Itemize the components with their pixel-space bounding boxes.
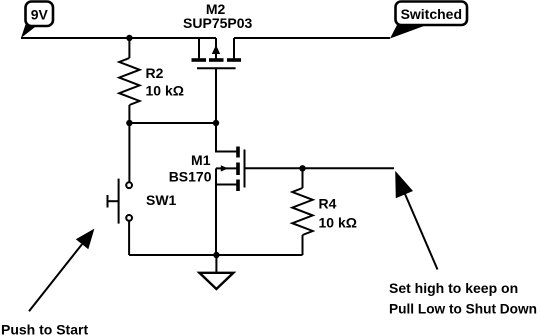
svg-text:Set high to keep on: Set high to keep on [389, 280, 518, 296]
net label Switched [390, 2, 467, 39]
svg-text:Switched: Switched [401, 6, 462, 22]
node ground junction [213, 252, 219, 258]
wire M1 source down [215, 168, 217, 255]
svg-text:R2: R2 [146, 65, 164, 81]
wire top rail right (M2 drain to Switched) [234, 37, 390, 39]
transistor M1 (BS170 n-channel) [169, 123, 245, 191]
svg-text:M1: M1 [191, 152, 211, 168]
svg-text:R4: R4 [319, 196, 337, 212]
transistor M2 (SUP75P03 p-channel) [183, 1, 252, 69]
node R2 bottom junction [126, 120, 132, 126]
net label 9V [21, 2, 53, 39]
wire M1 gate to right [245, 167, 395, 169]
resistor R2 [119, 38, 184, 123]
node rail-R2 junction [126, 35, 132, 41]
wire M2 gate drop to junction [215, 68, 217, 123]
svg-text:10 kΩ: 10 kΩ [146, 83, 184, 99]
node M2 gate / M1 drain junction [213, 120, 219, 126]
svg-text:Push to Start: Push to Start [1, 322, 88, 336]
annotation arrow Push to Start [1, 229, 94, 336]
wire top rail left (9V to M2 source) [21, 37, 216, 39]
svg-text:SUP75P03: SUP75P03 [183, 15, 252, 31]
wire R2 bottom to M2 gate node [129, 122, 216, 124]
svg-text:Pull Low to Shut Down: Pull Low to Shut Down [389, 300, 537, 316]
wire bottom rail [129, 254, 302, 256]
svg-text:BS170: BS170 [169, 169, 212, 185]
node R4 top junction [299, 165, 305, 171]
annotation arrow Set high / Pull low [389, 171, 537, 316]
ground [199, 255, 233, 289]
svg-text:9V: 9V [31, 7, 49, 23]
resistor R4 [292, 168, 357, 255]
svg-text:10 kΩ: 10 kΩ [319, 215, 357, 231]
switch SW1 [108, 123, 177, 255]
svg-text:SW1: SW1 [146, 192, 177, 208]
